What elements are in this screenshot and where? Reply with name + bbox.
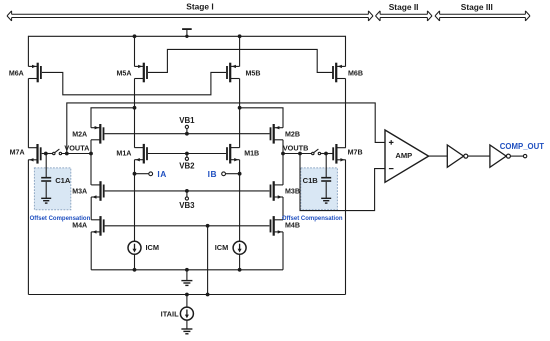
transistor M3B (270, 181, 283, 201)
node M7B gate / C1B junction (324, 152, 328, 156)
stage II span arrow (376, 11, 433, 21)
wire VB2 gate line M1A-M1B (148, 153, 226, 155)
ground C1A (41, 198, 51, 203)
wire M7B gate to C1B (325, 154, 327, 178)
wire M2A source bracket (91, 108, 135, 128)
transistor M6A (28, 63, 41, 83)
node VOUTB riser junction (298, 152, 302, 156)
ground ITAIL (181, 329, 192, 334)
transistor M1A (135, 144, 148, 164)
wire M2A drain to VOUTA (90, 140, 92, 154)
wire C1A to ground (45, 182, 47, 199)
svg-text:ICM: ICM (215, 243, 229, 252)
transistor M7A (28, 144, 41, 164)
wire rail to M6B source (345, 36, 347, 67)
wire AMP to inverter 1 (429, 155, 448, 157)
wire M5A drain to M1A drain (134, 79, 136, 148)
wire ICM left to common line (134, 254, 136, 270)
svg-text:VOUTB: VOUTB (283, 144, 309, 153)
svg-text:M5B: M5B (246, 69, 261, 77)
svg-text:M1A: M1A (116, 149, 131, 157)
node ICM left junction (133, 268, 137, 272)
inverter 2 bubble (506, 154, 510, 158)
wire rail to M5B source (239, 36, 241, 66)
node ITAIL junction (185, 293, 189, 297)
node ICM right junction (238, 268, 242, 272)
transistor M3A (91, 181, 104, 201)
svg-text:Stage III: Stage III (461, 2, 493, 12)
svg-text:M6B: M6B (348, 70, 363, 78)
terminal IA (149, 172, 153, 176)
svg-text:C1A: C1A (55, 176, 71, 185)
svg-text:IA: IA (157, 169, 166, 179)
node VDD rail junction (185, 35, 188, 38)
transistor M5B (226, 63, 239, 83)
transistor M7B (332, 144, 345, 164)
wire M4A source down (90, 232, 92, 270)
wire VB3 gate line M3A-M3B (105, 190, 270, 192)
capacitor C1B (321, 177, 331, 182)
wire M4 gate tap to bottom rail (207, 226, 209, 295)
inverter 1 bubble (464, 154, 468, 158)
wire VB1 stub (186, 128, 188, 133)
terminal COMP_OUT (523, 154, 526, 157)
wire VOUTB to M3B drain (282, 154, 284, 185)
svg-text:ITAIL: ITAIL (161, 309, 179, 318)
svg-text:M3B: M3B (285, 188, 300, 196)
wire top supply rail (28, 35, 345, 37)
current source ITAIL (180, 307, 193, 320)
terminal IB (222, 172, 226, 176)
offset compensation box A (34, 168, 70, 210)
wire M2B source bracket (240, 108, 283, 128)
switch S2 right contact (318, 152, 320, 154)
svg-text:M3A: M3A (72, 188, 87, 196)
node VB3 junction (185, 189, 189, 193)
wire VOUTA to M3A drain (90, 154, 92, 185)
node rail-M5B junction (238, 34, 242, 38)
transistor M5A (135, 63, 148, 83)
ground ICM common (181, 281, 192, 286)
inverter 1 (447, 145, 463, 167)
switch S2 left contact (312, 152, 314, 154)
svg-text:Offset Compensation: Offset Compensation (282, 216, 343, 222)
wire M5A gate to M6B gate (148, 49, 332, 72)
wire M7A gate to C1A (45, 154, 47, 178)
AMP minus sign (389, 168, 394, 170)
svg-text:M2B: M2B (285, 131, 300, 139)
wire M4B source down (282, 232, 284, 270)
wire IB stub (225, 173, 239, 175)
transistor M6B (332, 63, 345, 83)
svg-text:C1B: C1B (303, 176, 319, 185)
wire rail to ITAIL (186, 295, 188, 308)
node VOUTB junction (281, 152, 285, 156)
wire M3A source to M4A drain (90, 197, 92, 220)
svg-text:M7A: M7A (10, 148, 25, 156)
wire VB2 stub (186, 154, 188, 158)
stage III span arrow (435, 11, 530, 21)
switch S1 left contact (53, 152, 55, 154)
node M7A gate / C1A junction (44, 152, 48, 156)
wire ICM common line (91, 269, 283, 271)
svg-text:M6A: M6A (9, 70, 24, 78)
AMP plus sign (389, 140, 394, 145)
stage I span arrow (7, 11, 373, 21)
switch S2 lever (314, 149, 319, 153)
switch S1 right contact (59, 152, 61, 154)
svg-text:ICM: ICM (146, 243, 160, 252)
wire M1A source to ICM (134, 160, 136, 242)
wire bottom tail rail (28, 294, 345, 296)
VDD supply symbol (182, 28, 192, 36)
transistor M4A (91, 216, 104, 236)
svg-text:VB2: VB2 (179, 162, 195, 171)
wire VOUTA to AMP plus input (67, 103, 386, 154)
svg-text:IB: IB (208, 169, 217, 179)
wire VB1 gate line M2A-M2B (104, 133, 269, 135)
transistor M2A (91, 124, 104, 144)
terminal VB3 (185, 197, 188, 200)
node M2A source junction (133, 106, 137, 110)
wire M6A drain to M7A drain (27, 79, 29, 148)
wire rail to M5A source (134, 36, 136, 66)
wire M5B drain to M1B drain (239, 79, 241, 148)
node tail rail junction (206, 293, 210, 297)
terminal VB1 (185, 125, 188, 128)
wire IA stub (135, 173, 149, 175)
switch S1 lever (55, 149, 60, 153)
svg-text:VOUTA: VOUTA (64, 144, 90, 153)
wire switch to M7B gate (321, 153, 333, 155)
terminal VB2 (185, 157, 188, 160)
svg-text:VB3: VB3 (179, 201, 195, 210)
svg-text:M1B: M1B (244, 149, 259, 157)
node VOUTA junction (89, 152, 93, 156)
node M4 gate tap junction (206, 224, 210, 228)
svg-text:M4A: M4A (72, 221, 87, 229)
wire M7A gate lead (42, 153, 53, 155)
current source ICM left (128, 241, 141, 254)
wire M3B source to M4B drain (282, 197, 284, 220)
wire inverter 2 to output (510, 155, 523, 157)
wire M7B source to bottom rail (345, 160, 347, 295)
svg-text:M7B: M7B (348, 148, 363, 156)
wire VOUTB to AMP minus input (300, 154, 386, 211)
transistor M4B (270, 216, 283, 236)
svg-text:Stage II: Stage II (389, 2, 419, 12)
node IB junction (238, 172, 242, 176)
svg-text:M4B: M4B (285, 221, 300, 229)
node ICM ground junction (185, 268, 189, 272)
svg-text:VB1: VB1 (179, 116, 195, 125)
wire C1B to ground (325, 182, 327, 199)
svg-text:Stage I: Stage I (186, 1, 213, 11)
ground C1B (321, 198, 331, 203)
svg-text:M2A: M2A (72, 131, 87, 139)
wire VOUTB segment (283, 153, 312, 155)
transistor M1B (226, 144, 239, 164)
svg-text:M5A: M5A (117, 69, 132, 77)
inverter 2 (490, 145, 506, 167)
wire rail to M6A source (27, 36, 29, 67)
capacitor C1A (41, 177, 51, 182)
node VOUTA riser junction (65, 152, 69, 156)
wire VB3 stub (186, 191, 188, 197)
svg-text:AMP: AMP (395, 151, 412, 160)
op-amp AMP (385, 130, 429, 182)
node M2B source junction (238, 106, 242, 110)
offset compensation box B (301, 168, 338, 210)
node IA junction (133, 172, 137, 176)
svg-text:COMP_OUT: COMP_OUT (500, 142, 544, 151)
wire M6A gate to M5B gate (42, 72, 226, 94)
wire M6B drain to M7B drain (345, 79, 347, 148)
current source ICM right (233, 241, 246, 254)
wire M4 gate line M4A-M4B (105, 225, 270, 227)
node rail-M5A junction (133, 34, 137, 38)
wire ICM line to ground (186, 270, 188, 281)
transistor M2B (270, 124, 283, 144)
node VB2 junction (185, 152, 189, 156)
node VB1 junction (185, 132, 189, 136)
wire switch to VOUTA (62, 153, 91, 155)
wire M7A source to bottom rail (27, 160, 29, 295)
wire M2B drain to VOUTB (282, 140, 284, 154)
wire ICM right to common line (239, 254, 241, 270)
wire ITAIL to ground (186, 320, 188, 329)
wire inverter 1 to inverter 2 (468, 155, 490, 157)
wire M1B source to ICM (239, 160, 241, 242)
